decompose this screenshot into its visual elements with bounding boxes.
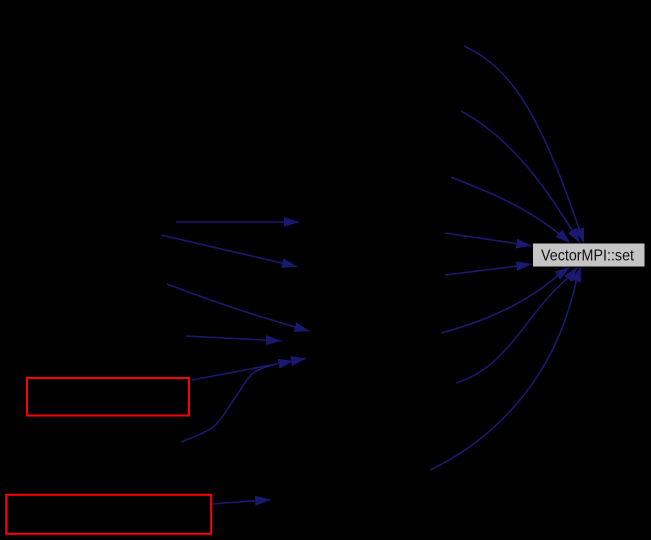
wire edge E11: mid node P -> VectorMPI::set [445, 233, 532, 246]
svg-text:VectorMPI::set: VectorMPI::set [541, 248, 634, 265]
wire edge E2: caller b -> mid node Q [161, 235, 297, 267]
node red box 2 (truncated caller) [6, 495, 211, 534]
wire edge E4: caller d -> mid node S [186, 336, 281, 341]
wire edge E15: mid node U -> VectorMPI::set (long arc) [430, 267, 581, 470]
wire edge E1: caller a -> mid node P [176, 221, 299, 223]
wire edge E3: caller c -> mid node R [167, 284, 310, 331]
wire edge E12: mid node Q -> VectorMPI::set [445, 264, 532, 275]
wire edge E9: top caller 2 -> VectorMPI::set [461, 111, 580, 243]
node red box 1 (truncated caller) [27, 378, 189, 416]
wire edge E14: mid node T -> VectorMPI::set [456, 267, 577, 383]
wire edge E10: top caller 3 -> VectorMPI::set [451, 177, 570, 243]
wire edge E8: top caller 1 -> VectorMPI::set (big arc) [464, 46, 584, 243]
wire edge E7: red node 2 -> mid node U [212, 500, 270, 505]
wire edge E5: red node 1 -> mid node T [192, 358, 306, 380]
node VectorMPI::set (current function) [533, 243, 646, 267]
wire edge E6: caller e -> mid node T (s-curve) [181, 361, 294, 442]
wire edge E13: mid node R -> VectorMPI::set [441, 267, 570, 333]
